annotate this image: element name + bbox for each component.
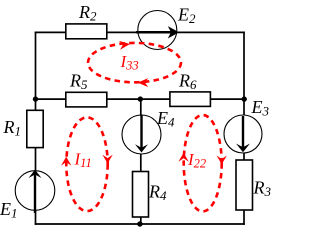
- I22 loop arrow left (points up): [178, 153, 188, 162]
- E1 emf arrow (points up): [29, 170, 42, 213]
- I11 loop arrow left (points up): [61, 157, 71, 166]
- resistor R3: [236, 160, 253, 210]
- node junction left (R1/R5 top): [33, 96, 38, 101]
- mesh current loop I11 (dashed ellipse, clockwise): [66, 117, 107, 211]
- resistor R5: [66, 92, 107, 107]
- voltage source E3 (circle): [224, 115, 262, 153]
- wire bottom (bottom rail): [35, 223, 245, 225]
- wire left column (left node down through R1, E1 to bottom rail): [35, 99, 37, 225]
- wire left (top-left corner down to left node): [35, 32, 37, 100]
- node junction right (R6/E3): [242, 96, 247, 101]
- I33 loop arrow bottom (points left): [138, 78, 149, 87]
- node junction bottom (R4/bottom rail): [137, 221, 142, 226]
- I11 loop arrow right (points down): [102, 155, 112, 164]
- mesh current loop I33 (dashed ellipse, clockwise): [88, 43, 181, 82]
- mesh current loop I22 (dashed ellipse, clockwise): [184, 115, 222, 211]
- voltage source E4 (circle): [122, 115, 161, 154]
- resistor R4: [133, 172, 149, 218]
- resistor R6: [170, 92, 211, 107]
- resistor R1: [27, 110, 43, 147]
- wire top (node A to node B via R2, E2): [35, 31, 245, 33]
- voltage source E1 (circle): [15, 171, 55, 211]
- I22 loop arrow right (points down): [217, 156, 227, 165]
- E4 emf arrow (points down): [135, 116, 148, 153]
- wire right (top-right corner down through E3, R3 to bottom): [243, 32, 245, 225]
- I33 loop arrow top (points right): [119, 40, 131, 50]
- node junction middle (R5/R6/E4): [138, 96, 143, 101]
- E2 emf arrow (points right): [136, 26, 179, 38]
- wire middle vertical (middle node down through E4, R4 to bottom node): [140, 99, 142, 224]
- resistor R2: [66, 24, 107, 39]
- E3 emf arrow (points down): [236, 116, 250, 152]
- wire middle horizontal (left node to right node via R5, R6): [36, 98, 245, 100]
- voltage source E2 (circle): [138, 11, 177, 50]
